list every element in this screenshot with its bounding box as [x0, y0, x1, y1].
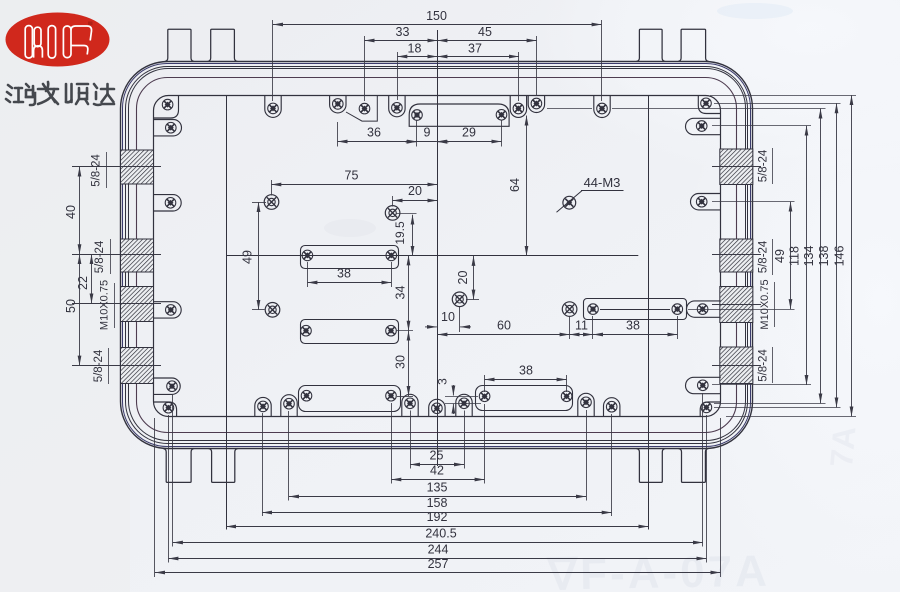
svg-text:158: 158: [427, 496, 448, 510]
top boss x536: [528, 96, 544, 113]
dim 30: [408, 331, 410, 396]
top boss x338 with step: [330, 96, 346, 113]
slot S1: [301, 246, 399, 269]
svg-text:257: 257: [428, 557, 449, 571]
right ext y403: [714, 403, 826, 405]
right ext y309: [688, 309, 795, 311]
svg-text:9: 9: [424, 126, 431, 140]
dim 146: [851, 95, 853, 416]
bottom boss x436: [429, 399, 445, 416]
svg-text:45: 45: [478, 25, 492, 39]
svg-text:40: 40: [64, 205, 78, 219]
large screw E: [562, 302, 577, 317]
svg-text:38: 38: [519, 364, 533, 378]
dim 33: [365, 40, 438, 42]
svg-text:∇F-A-07A: ∇F-A-07A: [545, 547, 770, 592]
svg-text:60: 60: [497, 318, 511, 332]
svg-text:10: 10: [441, 310, 455, 324]
right boss centerlines: [712, 166, 761, 168]
left wall boss y203: [153, 195, 181, 211]
HF logo letters: [25, 26, 91, 58]
center reference line: [437, 30, 439, 466]
dim 64: [526, 116, 528, 256]
bottom boss x289: [281, 395, 297, 417]
bottom-left tab 2: [209, 449, 238, 483]
left boss centerlines: [72, 166, 161, 168]
svg-text:49: 49: [773, 249, 787, 263]
svg-text:M10X0.75: M10X0.75: [759, 279, 771, 329]
top boss x602: [594, 96, 610, 118]
right ext y95: [710, 95, 856, 97]
top-left tab 1: [165, 29, 194, 61]
svg-text:29: 29: [462, 126, 476, 140]
svg-text:3: 3: [436, 378, 450, 385]
flange inner line C: [137, 78, 737, 433]
svg-text:150: 150: [426, 9, 447, 23]
svg-text:44-M3: 44-M3: [584, 175, 621, 190]
bottom-left tab 1: [163, 449, 194, 483]
svg-text:146: 146: [833, 246, 847, 267]
bottom boss x263: [255, 397, 271, 416]
bottom boss x611: [604, 398, 620, 417]
svg-text:240.5: 240.5: [425, 526, 456, 540]
right ext y385: [712, 384, 811, 386]
svg-text:192: 192: [427, 510, 448, 524]
svg-text:19.5: 19.5: [393, 221, 407, 245]
bottom boss x464: [456, 394, 472, 416]
svg-text:30: 30: [393, 355, 407, 369]
bottom-left corner boss: [153, 402, 176, 416]
slot S4 dim 38: [485, 379, 567, 381]
partition line left: [226, 96, 228, 530]
dim 36: [338, 141, 418, 143]
slot S5: [584, 299, 687, 320]
svg-text:11: 11: [575, 318, 588, 332]
svg-text:5/8-24: 5/8-24: [758, 349, 770, 382]
dim 257: [155, 572, 721, 574]
top connector slot S6: [409, 104, 509, 126]
HF logo red ellipse: [6, 13, 110, 67]
right wall threaded bosses (hatched): [720, 149, 753, 185]
svg-text:36: 36: [367, 126, 381, 140]
left wall threaded bosses (hatched): [121, 150, 154, 184]
dim 20 vertical: [473, 256, 475, 300]
svg-text:38: 38: [337, 267, 351, 281]
top-right corner boss: [698, 96, 721, 114]
dim 49 right: [790, 202, 792, 309]
right ext y103: [714, 103, 841, 105]
svg-text:18: 18: [408, 41, 422, 55]
right ext y202: [712, 201, 795, 203]
ext lines 36-9-29: [337, 122, 339, 147]
svg-text:64: 64: [508, 178, 522, 192]
dim 10 (outside arrows): [459, 307, 461, 332]
left wall boss y386: [153, 378, 180, 394]
bottom-right corner boss: [700, 402, 721, 416]
svg-text:22: 22: [76, 276, 90, 290]
dim 134: [820, 109, 822, 404]
right wall boss y309: [687, 301, 721, 317]
dim 49 interior: [258, 202, 260, 310]
dim 18: [397, 56, 437, 58]
svg-text:20: 20: [408, 184, 422, 198]
slot S2: [301, 320, 399, 344]
svg-text:5/8-24: 5/8-24: [758, 149, 770, 182]
svg-text:244: 244: [428, 542, 449, 556]
right ext y407: [714, 407, 841, 409]
svg-text:5/8-24: 5/8-24: [94, 240, 106, 273]
dim 244: [168, 558, 706, 560]
right wall boss 2: [686, 118, 721, 134]
svg-text:20: 20: [456, 271, 470, 285]
left wall boss 2: [153, 120, 181, 136]
large screw B: [385, 206, 400, 221]
top boss x273: [265, 96, 281, 118]
top-right tab 2: [678, 29, 709, 61]
svg-text:75: 75: [345, 169, 359, 183]
top-left tab 2: [208, 29, 238, 61]
dim 50: [79, 254, 81, 365]
bottom-right tab 2: [679, 449, 709, 483]
dim 192: [226, 526, 648, 528]
bottom-right tab 1: [636, 449, 665, 483]
dim 11: [570, 334, 593, 336]
flange outer edge A2: [123, 64, 751, 447]
Chinese logotype hongfa shunda: [6, 82, 114, 105]
slot S4: [476, 386, 573, 411]
svg-text:134: 134: [802, 246, 816, 267]
dim 19.5: [412, 215, 414, 256]
large screw D: [265, 303, 280, 318]
svg-text:5/8-24: 5/8-24: [93, 349, 105, 382]
inner wall D: [154, 96, 721, 417]
dim 25: [410, 464, 464, 466]
ext lines top screws: [272, 20, 274, 101]
dim 34: [408, 255, 410, 330]
right ext y416: [726, 416, 856, 418]
svg-text:37: 37: [468, 41, 482, 55]
datum line y256: [226, 255, 638, 257]
flange step line B1: [126, 67, 748, 444]
dim 37: [437, 56, 519, 58]
dim 29: [437, 141, 502, 143]
svg-text:7A: 7A: [823, 425, 862, 469]
field screw x364: [359, 103, 370, 114]
top boss x397: [389, 96, 405, 117]
top-left corner boss: [153, 96, 178, 118]
flange step line B2: [129, 69, 746, 441]
dim 20 top: [393, 200, 438, 202]
dim 158: [262, 512, 612, 514]
dim 40: [79, 167, 81, 255]
dim 22: [91, 254, 93, 303]
flange outer edge A: [121, 62, 753, 449]
svg-text:34: 34: [393, 286, 407, 300]
right wall boss y385: [686, 377, 721, 393]
svg-text:50: 50: [64, 299, 78, 313]
dim 138: [836, 103, 838, 407]
dim 38 right: [593, 334, 677, 336]
right ext y108: [547, 108, 592, 110]
top-right tab 1: [636, 29, 665, 61]
right ext y126: [712, 125, 811, 127]
bottom boss x410: [402, 394, 418, 416]
dim 240.5: [173, 542, 703, 544]
svg-text:M10X0.75: M10X0.75: [99, 280, 111, 330]
bottom extension lines: [410, 411, 412, 469]
large screw C: [452, 292, 467, 307]
svg-text:5/8-24: 5/8-24: [758, 240, 770, 273]
bottom boss x586: [578, 393, 594, 416]
svg-text:118: 118: [788, 246, 802, 266]
dim 150: [273, 24, 602, 26]
svg-text:138: 138: [817, 246, 831, 267]
top boss x518: [510, 96, 526, 118]
dim 3 (outside arrows): [445, 396, 478, 398]
44-M3 screw and label: [563, 196, 576, 209]
dim 60: [437, 334, 569, 336]
slot S3: [299, 386, 401, 412]
svg-text:25: 25: [430, 449, 444, 463]
svg-text:135: 135: [427, 480, 448, 494]
dim 45: [437, 40, 536, 42]
dim 9 (outside arrows): [417, 141, 437, 143]
partition line right: [648, 96, 650, 530]
large screw A: [264, 195, 279, 210]
left wall boss y310: [153, 302, 181, 318]
dim 118: [806, 126, 808, 385]
dim 75: [271, 184, 437, 186]
svg-text:38: 38: [626, 318, 640, 332]
dim 135: [289, 496, 586, 498]
svg-text:5/8-24: 5/8-24: [91, 154, 103, 187]
dim 42: [391, 479, 484, 481]
right wall boss y202: [691, 194, 721, 210]
slot S1 dim 38: [307, 282, 391, 284]
svg-text:49: 49: [241, 250, 255, 264]
svg-text:42: 42: [430, 464, 444, 478]
svg-text:33: 33: [396, 25, 410, 39]
